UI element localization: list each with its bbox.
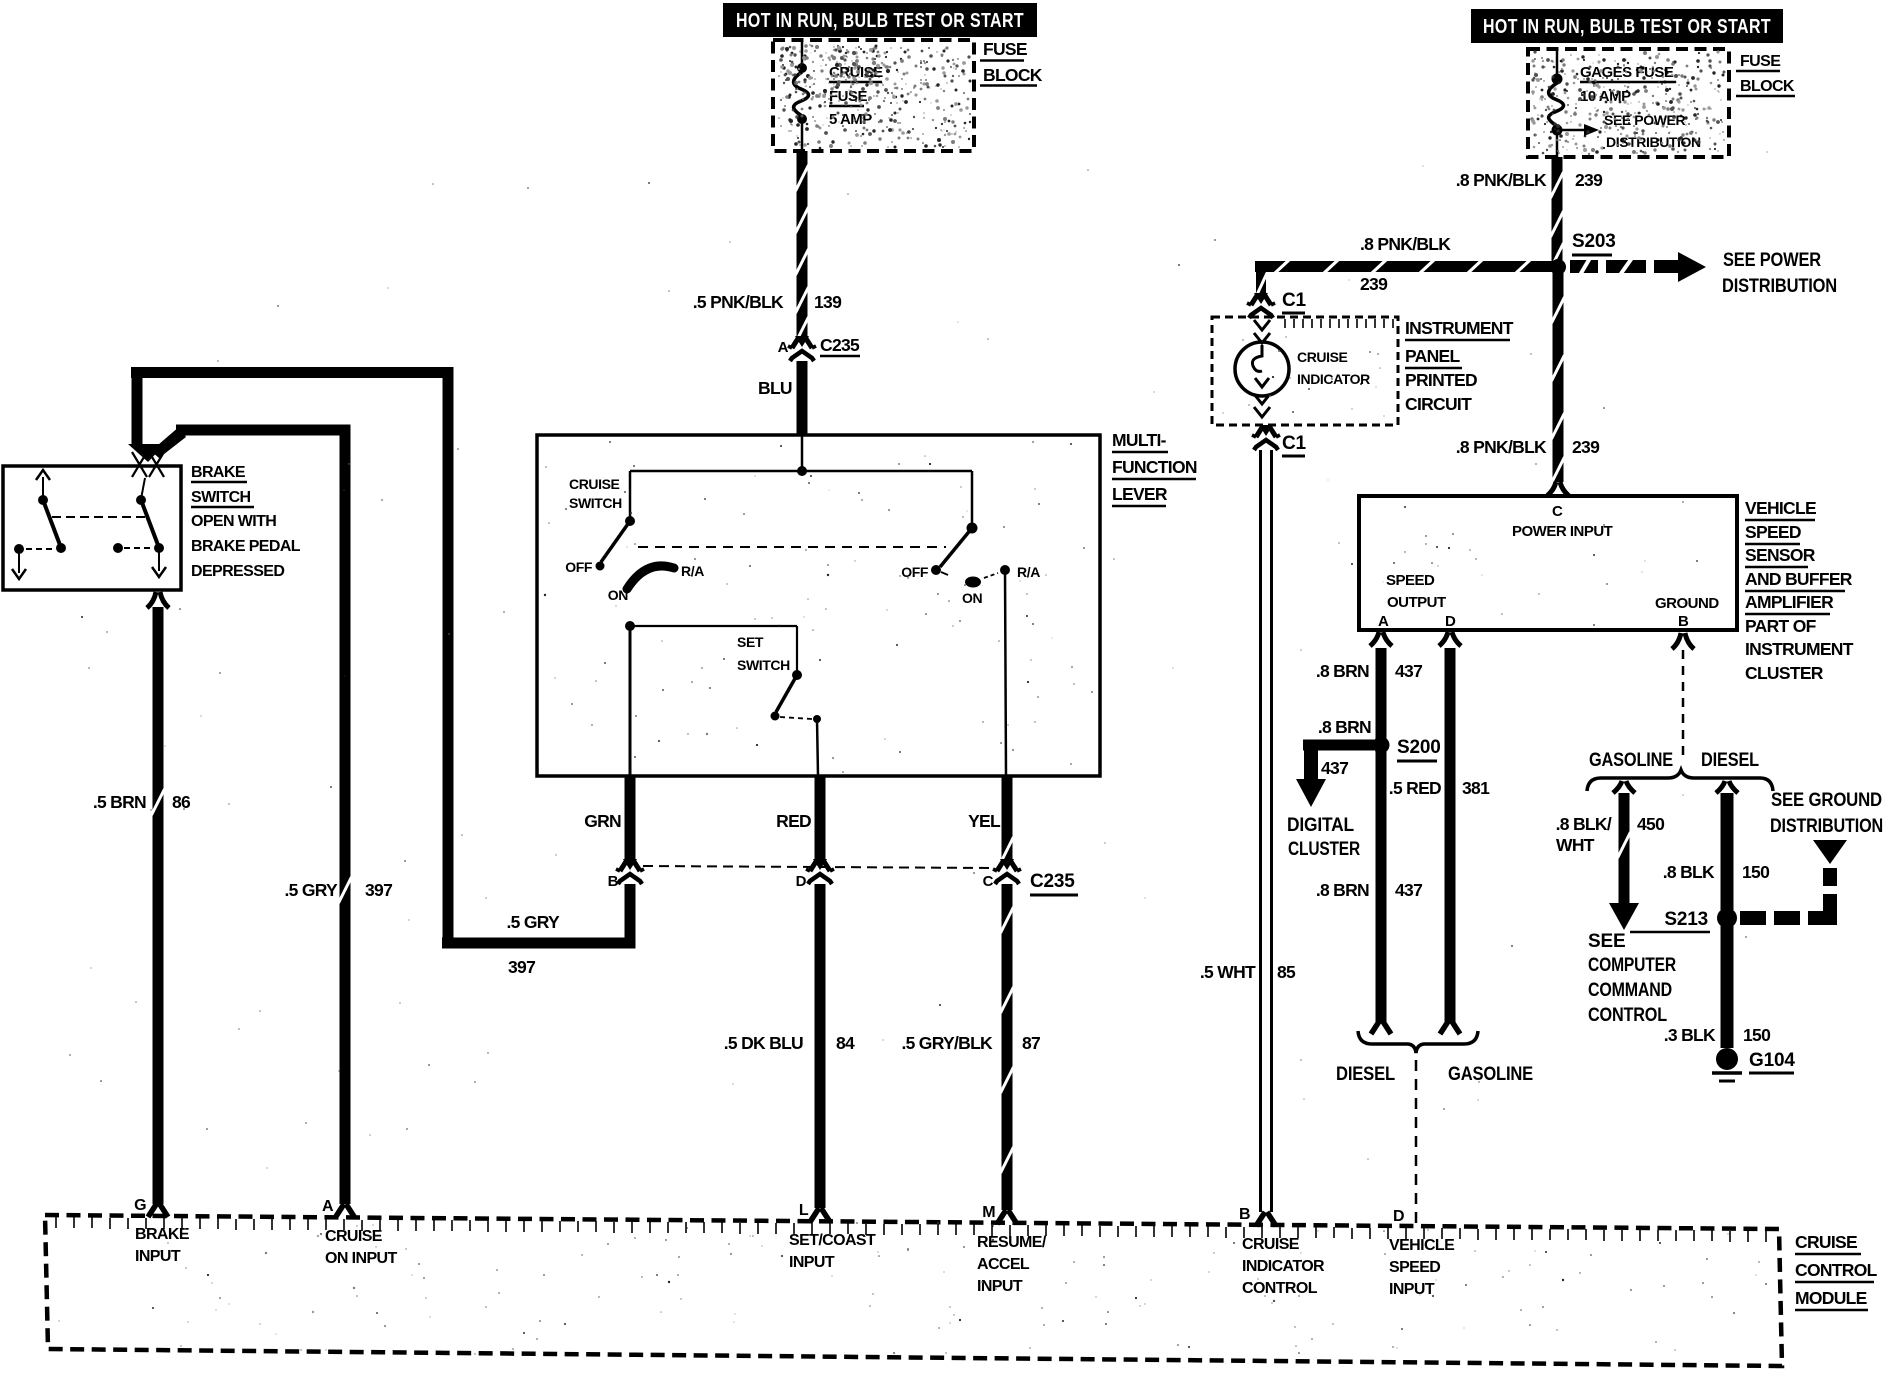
- connector C235 pin B: [608, 859, 644, 890]
- svg-text:GASOLINE: GASOLINE: [1589, 750, 1673, 771]
- svg-text:BLOCK: BLOCK: [983, 65, 1043, 85]
- wire .8 BLK 150 (diesel to S213): [1663, 781, 1770, 910]
- svg-text:CLUSTER: CLUSTER: [1288, 839, 1360, 860]
- cruise switch (right half, resume/accel): [901, 471, 1040, 606]
- wire .8 PNK/BLK 239 (S203 to C1 instrument panel): [1255, 234, 1553, 299]
- svg-text:ON: ON: [608, 587, 628, 603]
- svg-text:INPUT: INPUT: [977, 1278, 1023, 1295]
- svg-text:SWITCH: SWITCH: [569, 495, 622, 511]
- svg-text:ON: ON: [962, 590, 982, 606]
- lamp CRUISE INDICATOR: [1235, 320, 1370, 417]
- value label GAGES FUSE 10 AMP: [1580, 64, 1676, 105]
- svg-text:OFF: OFF: [565, 559, 593, 575]
- wire BLU (C235-A to multi-function lever): [758, 361, 808, 435]
- svg-text:GASOLINE: GASOLINE: [1448, 1064, 1533, 1085]
- module pin B CRUISE INDICATOR CONTROL: [1239, 1206, 1325, 1297]
- connector C1 (bottom, out of instrument panel): [1252, 425, 1307, 456]
- svg-text:RESUME/: RESUME/: [977, 1234, 1047, 1251]
- connector C235 pin C: [983, 859, 1021, 890]
- svg-text:CRUISE: CRUISE: [1795, 1232, 1857, 1252]
- svg-text:437: 437: [1321, 758, 1348, 778]
- node brake switch feed connector (double chevron): [128, 444, 165, 477]
- svg-text:CLUSTER: CLUSTER: [1745, 663, 1824, 683]
- svg-text:SPEED: SPEED: [1386, 572, 1435, 589]
- svg-text:OPEN WITH: OPEN WITH: [191, 513, 276, 530]
- svg-text:.5 RED: .5 RED: [1389, 778, 1441, 798]
- svg-text:ON INPUT: ON INPUT: [325, 1250, 397, 1267]
- svg-text:B: B: [1239, 1206, 1250, 1223]
- svg-text:139: 139: [814, 292, 842, 312]
- cruise switch mechanical link (dashed): [638, 546, 946, 548]
- note DIGITAL CLUSTER: [1287, 815, 1360, 860]
- connector C1 (top, into instrument panel): [1247, 290, 1307, 318]
- svg-text:G: G: [134, 1197, 146, 1214]
- svg-text:OUTPUT: OUTPUT: [1387, 594, 1446, 611]
- svg-text:.8 PNK/BLK: .8 PNK/BLK: [1360, 234, 1451, 254]
- wire lever internal feed: [630, 435, 972, 471]
- module pin A CRUISE ON INPUT: [322, 1198, 397, 1267]
- svg-text:G104: G104: [1749, 1050, 1795, 1071]
- module pin L SET/COAST INPUT: [789, 1202, 876, 1271]
- svg-text:SWITCH: SWITCH: [737, 657, 790, 673]
- ground G104: [1712, 1048, 1795, 1081]
- wire .8 PNK/BLK 239 (S203 to speed sensor C): [1456, 273, 1600, 496]
- svg-text:C1: C1: [1282, 433, 1307, 454]
- label FUSE BLOCK (right): [1736, 53, 1795, 96]
- svg-text:C235: C235: [1030, 871, 1075, 892]
- svg-text:397: 397: [508, 957, 535, 977]
- svg-text:FUSE: FUSE: [1740, 53, 1781, 70]
- svg-text:VEHICLE: VEHICLE: [1389, 1237, 1455, 1254]
- svg-text:FUSE: FUSE: [983, 39, 1027, 59]
- svg-text:CRUISE: CRUISE: [1297, 349, 1348, 365]
- label MULTI-FUNCTION LEVER: [1112, 430, 1197, 506]
- svg-text:.8 BRN: .8 BRN: [1316, 880, 1369, 900]
- svg-text:CONTROL: CONTROL: [1795, 1260, 1878, 1280]
- set switch: [737, 634, 821, 723]
- bracket ground split: [1587, 770, 1773, 791]
- value label CRUISE FUSE 5 AMP: [829, 64, 883, 128]
- svg-text:S203: S203: [1572, 231, 1616, 252]
- svg-text:D: D: [1445, 613, 1456, 630]
- svg-text:D: D: [796, 873, 807, 890]
- svg-text:LEVER: LEVER: [1112, 484, 1168, 504]
- svg-text:INSTRUMENT: INSTRUMENT: [1405, 318, 1514, 338]
- svg-text:C: C: [1552, 503, 1563, 520]
- fuse block (right) dashed box: [1528, 49, 1729, 157]
- wire .5 GRY 397 (C235-B to brake switch): [131, 367, 636, 977]
- svg-text:SWITCH: SWITCH: [191, 489, 251, 506]
- svg-text:FUNCTION: FUNCTION: [1112, 457, 1197, 477]
- svg-text:DIESEL: DIESEL: [1336, 1064, 1396, 1085]
- connector C235 pin A: [778, 335, 860, 361]
- pin A / D SPEED OUTPUT: [1378, 572, 1456, 630]
- svg-text:85: 85: [1277, 962, 1296, 982]
- svg-text:FUSE: FUSE: [829, 88, 868, 105]
- brace DIESEL/GASOLINE (speed output pair): [1336, 1031, 1533, 1085]
- svg-text:CRUISE: CRUISE: [569, 476, 620, 492]
- svg-text:VEHICLE: VEHICLE: [1745, 498, 1816, 518]
- svg-text:.5 BRN: .5 BRN: [93, 792, 146, 812]
- svg-text:450: 450: [1637, 814, 1665, 834]
- wire .5 DK BLU 84 (C235-D to module L): [724, 884, 855, 1208]
- svg-text:B: B: [608, 873, 619, 890]
- svg-text:MULTI-: MULTI-: [1112, 430, 1167, 450]
- splice S203: [1550, 231, 1616, 275]
- svg-text:INPUT: INPUT: [135, 1248, 181, 1265]
- svg-text:COMMAND: COMMAND: [1588, 980, 1672, 1001]
- svg-text:SPEED: SPEED: [1745, 522, 1801, 542]
- svg-text:SEE: SEE: [1588, 931, 1625, 952]
- svg-text:S200: S200: [1397, 737, 1441, 758]
- connector C235 dashed gang line: [643, 866, 995, 868]
- svg-text:ACCEL: ACCEL: [977, 1256, 1030, 1273]
- svg-text:CONTROL: CONTROL: [1588, 1005, 1667, 1026]
- svg-text:R/A: R/A: [681, 563, 704, 579]
- pin B GROUND: [1655, 595, 1719, 630]
- svg-text:PART OF: PART OF: [1745, 616, 1817, 636]
- svg-text:84: 84: [836, 1033, 855, 1053]
- label VEHICLE SPEED SENSOR AND BUFFER AMPLIFIER PART OF INSTRUMENT CLUSTER: [1745, 498, 1854, 683]
- wire .5 BRN 86 (brake switch to module G): [93, 592, 191, 1204]
- svg-text:SENSOR: SENSOR: [1745, 545, 1816, 565]
- note SEE COMPUTER COMMAND CONTROL: [1588, 931, 1676, 1026]
- svg-text:MODULE: MODULE: [1795, 1288, 1867, 1308]
- svg-text:YEL: YEL: [968, 811, 1001, 831]
- svg-text:POWER INPUT: POWER INPUT: [1512, 523, 1613, 540]
- svg-text:BRAKE: BRAKE: [135, 1226, 190, 1243]
- svg-text:INSTRUMENT: INSTRUMENT: [1745, 639, 1854, 659]
- svg-text:GRN: GRN: [584, 811, 621, 831]
- svg-text:PRINTED: PRINTED: [1405, 370, 1477, 390]
- svg-text:OFF: OFF: [901, 564, 929, 580]
- svg-text:AMPLIFIER: AMPLIFIER: [1745, 592, 1834, 612]
- svg-text:437: 437: [1395, 661, 1422, 681]
- svg-text:CRUISE: CRUISE: [1242, 1236, 1300, 1253]
- svg-text:C1: C1: [1282, 290, 1307, 311]
- wire .5 GRY 397 (brake switch to module A): [151, 425, 392, 1205]
- svg-text:.8 BLK/: .8 BLK/: [1556, 814, 1612, 834]
- svg-text:150: 150: [1742, 862, 1770, 882]
- svg-text:B: B: [1678, 613, 1689, 630]
- power feed banner HOT IN RUN, BULB TEST OR START (right): [1471, 9, 1783, 43]
- svg-text:BLOCK: BLOCK: [1740, 78, 1795, 95]
- svg-text:M: M: [982, 1204, 995, 1221]
- svg-text:CIRCUIT: CIRCUIT: [1405, 394, 1472, 414]
- wire vehicle speed input (dashed to module D): [1415, 1060, 1418, 1227]
- note SEE GROUND DISTRIBUTION with dashed wire and arrow: [1740, 790, 1883, 925]
- svg-text:HOT IN RUN, BULB TEST OR START: HOT IN RUN, BULB TEST OR START: [736, 10, 1024, 32]
- power feed banner HOT IN RUN, BULB TEST OR START (left): [723, 3, 1037, 37]
- svg-text:381: 381: [1462, 778, 1490, 798]
- svg-text:SET: SET: [737, 634, 764, 650]
- svg-text:.8 PNK/BLK: .8 PNK/BLK: [1456, 170, 1547, 190]
- fuse CRUISE FUSE 5 AMP: [794, 40, 809, 151]
- svg-text:SEE POWER: SEE POWER: [1723, 250, 1821, 271]
- wire GRN (lever B stub): [584, 776, 635, 864]
- wire R/A contact to lever edge (YEL): [1005, 569, 1006, 776]
- wire YEL (lever C stub): [968, 776, 1013, 864]
- svg-text:L: L: [799, 1202, 809, 1219]
- wire .5 RED 381 (speed output D): [1389, 632, 1490, 1034]
- wire .5 GRY/BLK 87 (C235-C to module M): [901, 884, 1040, 1210]
- svg-text:437: 437: [1395, 880, 1422, 900]
- brake switch mechanical link (dashed): [52, 516, 147, 518]
- module pin D VEHICLE SPEED INPUT: [1389, 1208, 1455, 1298]
- pin C POWER INPUT: [1512, 503, 1613, 540]
- splice S200: [1373, 737, 1441, 762]
- svg-text:GROUND: GROUND: [1655, 595, 1719, 612]
- svg-text:COMPUTER: COMPUTER: [1588, 955, 1676, 976]
- svg-text:R/A: R/A: [1017, 564, 1040, 580]
- svg-text:239: 239: [1572, 437, 1600, 457]
- wire RED (lever D stub): [776, 776, 825, 864]
- svg-text:HOT IN RUN, BULB TEST OR START: HOT IN RUN, BULB TEST OR START: [1483, 16, 1771, 38]
- wire .8 BRN 437 (speed output A): [1316, 632, 1422, 1034]
- wire .8 PNK/BLK 239 (gages fuse to S203): [1456, 157, 1603, 269]
- svg-text:C235: C235: [820, 335, 860, 355]
- module pin G BRAKE INPUT: [134, 1197, 190, 1265]
- svg-text:397: 397: [365, 880, 392, 900]
- svg-text:C: C: [983, 873, 994, 890]
- svg-text:CRUISE: CRUISE: [325, 1228, 383, 1245]
- label INSTRUMENT PANEL PRINTED CIRCUIT: [1405, 318, 1514, 414]
- svg-text:A: A: [1378, 613, 1389, 630]
- svg-text:239: 239: [1575, 170, 1603, 190]
- labels GASOLINE / DIESEL (ground split): [1589, 750, 1759, 771]
- svg-text:A: A: [778, 339, 789, 356]
- svg-text:BLU: BLU: [758, 378, 792, 398]
- wire .5 WHT 85 (C1 to module B, printed circuit double line): [1200, 450, 1296, 1212]
- svg-text:.5 PNK/BLK: .5 PNK/BLK: [693, 292, 784, 312]
- svg-text:A: A: [322, 1198, 334, 1215]
- svg-text:.5 GRY/BLK: .5 GRY/BLK: [901, 1033, 993, 1053]
- svg-text:.5 DK BLU: .5 DK BLU: [724, 1033, 803, 1053]
- svg-text:INDICATOR: INDICATOR: [1242, 1258, 1325, 1275]
- splice S213: [1630, 908, 1737, 932]
- svg-text:DISTRIBUTION: DISTRIBUTION: [1722, 276, 1837, 297]
- vehicle speed sensor box: [1359, 496, 1737, 630]
- wire .3 BLK 150 (S213 to G104): [1664, 926, 1771, 1048]
- svg-text:.8 BRN: .8 BRN: [1316, 661, 1369, 681]
- brake switch pole 1 (left): [12, 470, 66, 579]
- svg-text:.8 BRN: .8 BRN: [1318, 717, 1371, 737]
- svg-text:CONTROL: CONTROL: [1242, 1280, 1318, 1297]
- svg-text:SET/COAST: SET/COAST: [789, 1232, 876, 1249]
- svg-text:87: 87: [1022, 1033, 1040, 1053]
- svg-text:.5 WHT: .5 WHT: [1200, 962, 1256, 982]
- svg-text:DIESEL: DIESEL: [1701, 750, 1759, 771]
- svg-text:PANEL: PANEL: [1405, 346, 1461, 366]
- label C235: [1030, 871, 1078, 895]
- svg-text:D: D: [1393, 1208, 1404, 1225]
- svg-text:DIGITAL: DIGITAL: [1287, 815, 1355, 836]
- svg-text:.5 GRY: .5 GRY: [284, 880, 338, 900]
- svg-text:INPUT: INPUT: [1389, 1281, 1435, 1298]
- svg-text:INPUT: INPUT: [789, 1254, 835, 1271]
- svg-text:DEPRESSED: DEPRESSED: [191, 563, 284, 580]
- wire .8 BLK/WHT 450 (gasoline, arrow to computer command control): [1556, 781, 1665, 930]
- wire set switch to lever edge (RED): [817, 719, 818, 776]
- svg-text:BRAKE: BRAKE: [191, 464, 246, 481]
- wire GRN riser (ON contact to lever edge): [629, 626, 632, 776]
- brake switch pole 2 (right): [113, 478, 166, 577]
- svg-text:SEE GROUND: SEE GROUND: [1771, 790, 1882, 811]
- svg-text:RED: RED: [776, 811, 811, 831]
- fuse block (left) dashed box: [773, 40, 974, 151]
- wire set switch feed: [630, 626, 797, 675]
- wire 437 branch to digital cluster (arrow): [1296, 740, 1374, 808]
- svg-text:S213: S213: [1664, 909, 1708, 930]
- label BRAKE SWITCH OPEN WITH BRAKE PEDAL DEPRESSED: [191, 464, 301, 580]
- connector C235 pin D: [796, 859, 834, 890]
- svg-text:.3 BLK: .3 BLK: [1664, 1025, 1716, 1045]
- brake switch box: [3, 466, 181, 590]
- svg-text:DISTRIBUTION: DISTRIBUTION: [1606, 134, 1701, 150]
- svg-text:BRAKE PEDAL: BRAKE PEDAL: [191, 538, 301, 555]
- svg-text:WHT: WHT: [1556, 835, 1595, 855]
- svg-text:86: 86: [172, 792, 191, 812]
- label FUSE BLOCK (left): [980, 39, 1043, 86]
- svg-text:239: 239: [1360, 274, 1388, 294]
- wire ground B (dashed from sensor): [1672, 633, 1694, 762]
- svg-text:INDICATOR: INDICATOR: [1297, 371, 1370, 387]
- svg-text:SPEED: SPEED: [1389, 1259, 1440, 1276]
- multi-function lever box: [537, 435, 1100, 776]
- svg-text:.5 GRY: .5 GRY: [506, 912, 560, 932]
- svg-text:DISTRIBUTION: DISTRIBUTION: [1770, 816, 1883, 837]
- svg-text:.8 BLK: .8 BLK: [1663, 862, 1715, 882]
- svg-text:AND BUFFER: AND BUFFER: [1745, 569, 1853, 589]
- label CRUISE CONTROL MODULE: [1795, 1232, 1878, 1310]
- cruise control module dashed box: [45, 1215, 1782, 1366]
- instrument panel printed circuit dashed box: [1212, 317, 1398, 425]
- svg-text:.8 PNK/BLK: .8 PNK/BLK: [1456, 437, 1547, 457]
- module pin M RESUME/ACCEL INPUT: [977, 1204, 1047, 1295]
- wire .5 PNK/BLK 139 (fuse block to C235-A): [693, 151, 842, 343]
- note SEE POWER DISTRIBUTION (fuse block) with arrow: [1557, 112, 1701, 150]
- fuse GAGES FUSE 10 AMP: [1549, 49, 1564, 157]
- node lever feed junction: [797, 466, 807, 476]
- svg-text:150: 150: [1743, 1025, 1771, 1045]
- cruise switch (left half, ON/OFF/R-A): [565, 471, 704, 631]
- note SEE POWER DISTRIBUTION (S203) with hatched arrow: [1570, 250, 1837, 297]
